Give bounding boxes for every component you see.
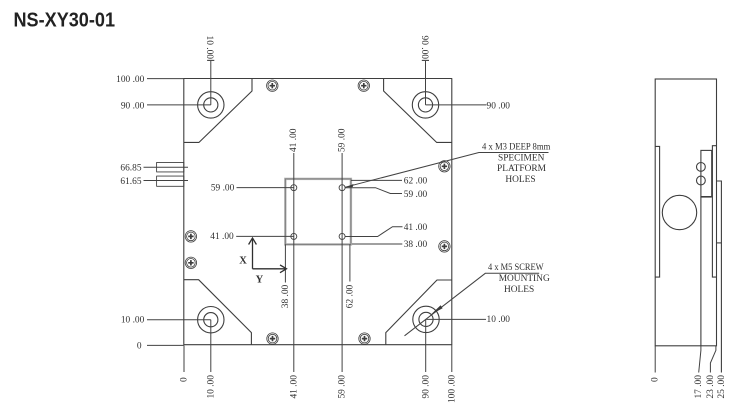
svg-text:MOUNTING: MOUNTING <box>499 274 550 284</box>
svg-text:23 .00: 23 .00 <box>706 375 716 399</box>
svg-text:HOLES: HOLES <box>505 175 535 185</box>
svg-text:17 .00: 17 .00 <box>694 375 704 399</box>
svg-text:90 .00: 90 .00 <box>421 375 431 399</box>
svg-text:X: X <box>239 256 247 267</box>
svg-text:59 .00: 59 .00 <box>404 190 428 200</box>
svg-text:4 x M5 SCREW: 4 x M5 SCREW <box>488 263 544 273</box>
svg-text:10 .00: 10 .00 <box>121 316 145 326</box>
svg-text:90 .00: 90 .00 <box>419 36 429 60</box>
svg-text:0: 0 <box>651 377 661 382</box>
svg-text:66.85: 66.85 <box>120 164 141 174</box>
svg-text:10 .00: 10 .00 <box>206 375 216 399</box>
svg-text:59 .00: 59 .00 <box>338 375 348 399</box>
svg-text:41 .00: 41 .00 <box>289 128 299 152</box>
svg-text:61.65: 61.65 <box>120 177 141 187</box>
svg-text:10 .00: 10 .00 <box>204 36 214 60</box>
svg-text:59 .00: 59 .00 <box>211 184 235 194</box>
svg-text:100 .00: 100 .00 <box>448 375 458 403</box>
svg-text:4 x M3 DEEP 8mm: 4 x M3 DEEP 8mm <box>482 142 551 152</box>
svg-text:62 .00: 62 .00 <box>404 177 428 187</box>
svg-text:41 .00: 41 .00 <box>210 232 234 242</box>
svg-text:41 .00: 41 .00 <box>289 375 299 399</box>
svg-text:90 .00: 90 .00 <box>487 101 511 111</box>
svg-text:25 .00: 25 .00 <box>717 375 727 399</box>
svg-text:10 .00: 10 .00 <box>487 315 511 325</box>
svg-text:0: 0 <box>180 377 190 382</box>
svg-text:41 .00: 41 .00 <box>404 223 428 233</box>
svg-text:100 .00: 100 .00 <box>116 75 144 85</box>
svg-text:Y: Y <box>256 275 264 286</box>
svg-text:90 .00: 90 .00 <box>121 101 145 111</box>
svg-text:38 .00: 38 .00 <box>404 240 428 250</box>
svg-text:HOLES: HOLES <box>504 285 534 295</box>
svg-text:SPECIMEN: SPECIMEN <box>498 153 545 163</box>
svg-text:59 .00: 59 .00 <box>337 128 347 152</box>
svg-text:NS-XY30-01: NS-XY30-01 <box>14 10 116 32</box>
svg-text:62 .00: 62 .00 <box>346 284 356 308</box>
svg-text:PLATFORM: PLATFORM <box>497 164 547 174</box>
svg-text:0: 0 <box>137 341 142 351</box>
svg-text:38 .00: 38 .00 <box>281 284 291 308</box>
